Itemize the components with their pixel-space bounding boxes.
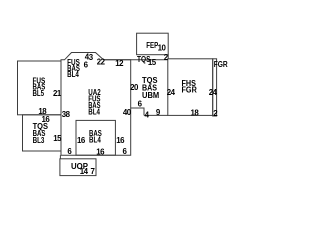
label TQS/BAS/BL3 [33, 122, 49, 145]
label FUS/BAS/BL4 bump [67, 58, 80, 79]
svg-text:40: 40 [123, 108, 132, 117]
svg-text:38: 38 [62, 110, 71, 119]
svg-text:14: 14 [80, 167, 89, 176]
section UA2 outline with FUS/BAS/BL4 bump [61, 53, 131, 156]
svg-text:15: 15 [53, 134, 62, 143]
svg-text:FGR: FGR [214, 60, 228, 69]
inner section BAS/BL4 outline [76, 120, 115, 155]
svg-text:16: 16 [77, 136, 86, 145]
svg-text:21: 21 [53, 89, 62, 98]
label BAS/BL4 inner [89, 129, 102, 145]
svg-text:15: 15 [148, 58, 157, 67]
svg-text:BL4: BL4 [67, 70, 79, 79]
UBM bottom step [131, 108, 144, 115]
svg-text:4: 4 [145, 110, 150, 119]
top line across TQS strip [104, 59, 168, 61]
section FGR narrow outline [213, 59, 217, 116]
svg-text:7: 7 [91, 167, 96, 176]
svg-text:6: 6 [138, 100, 143, 109]
svg-text:BL4: BL4 [88, 108, 100, 117]
label FHS/FGR [182, 79, 197, 94]
section FUS/BAS/BL5 outline [18, 61, 62, 115]
svg-text:24: 24 [209, 88, 218, 97]
svg-text:12: 12 [115, 59, 124, 68]
svg-text:16: 16 [96, 148, 105, 157]
svg-text:20: 20 [130, 83, 139, 92]
FEP right edge connector [167, 55, 169, 59]
section TQS/BAS/BL3 outline [23, 115, 62, 151]
svg-text:22: 22 [97, 58, 106, 67]
svg-text:BL3: BL3 [33, 136, 45, 145]
label FUS/BAS/BL5 [33, 76, 46, 98]
svg-text:18: 18 [191, 108, 200, 117]
svg-text:2: 2 [213, 109, 218, 118]
svg-text:UBM: UBM [142, 91, 160, 100]
svg-text:24: 24 [167, 88, 176, 97]
bottom line under UBM notch [144, 114, 168, 116]
section FEP outline [137, 33, 169, 55]
svg-text:BL5: BL5 [33, 89, 45, 98]
section FHS/FGR outline [168, 59, 213, 116]
svg-text:16: 16 [116, 136, 125, 145]
svg-text:BL4: BL4 [89, 136, 101, 145]
label UA2/FUS/BAS/BL4 [88, 88, 101, 116]
UOP left connector [59, 155, 61, 159]
section UOP outline [60, 159, 96, 176]
svg-text:10: 10 [158, 44, 167, 53]
svg-text:FGR: FGR [182, 85, 197, 94]
svg-text:6: 6 [123, 147, 128, 156]
label TQS/BAS/UBM [142, 76, 160, 100]
